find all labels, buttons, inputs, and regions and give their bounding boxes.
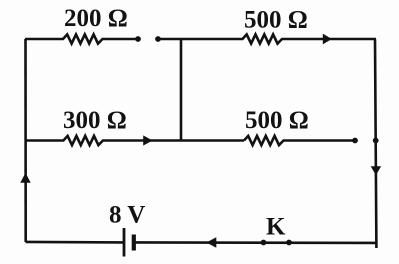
svg-text:500 Ω: 500 Ω <box>244 7 308 34</box>
svg-text:K: K <box>266 214 286 241</box>
svg-text:300 Ω: 300 Ω <box>63 107 127 134</box>
svg-text:200 Ω: 200 Ω <box>64 5 128 32</box>
svg-text:8 V: 8 V <box>109 202 145 229</box>
svg-text:500 Ω: 500 Ω <box>245 107 309 134</box>
